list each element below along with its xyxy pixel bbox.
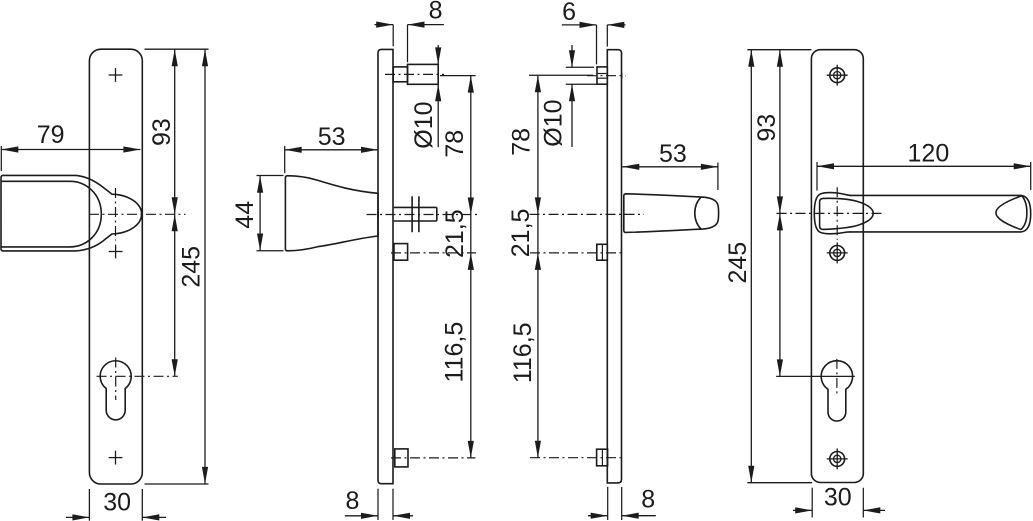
svg-text:21,5: 21,5 xyxy=(441,209,469,258)
svg-text:78: 78 xyxy=(441,130,469,158)
svg-text:30: 30 xyxy=(103,488,131,516)
svg-text:21,5: 21,5 xyxy=(507,209,535,258)
svg-text:245: 245 xyxy=(724,242,752,284)
svg-text:8: 8 xyxy=(641,486,655,514)
svg-text:6: 6 xyxy=(562,0,576,26)
svg-text:79: 79 xyxy=(37,121,65,149)
svg-text:93: 93 xyxy=(148,118,176,146)
svg-text:Ø10: Ø10 xyxy=(540,99,568,146)
svg-text:78: 78 xyxy=(507,128,535,156)
svg-text:8: 8 xyxy=(345,487,359,515)
svg-text:93: 93 xyxy=(753,114,781,142)
svg-text:30: 30 xyxy=(824,483,852,511)
svg-text:53: 53 xyxy=(318,123,346,151)
svg-text:116,5: 116,5 xyxy=(509,322,537,383)
svg-text:120: 120 xyxy=(908,140,950,168)
svg-text:245: 245 xyxy=(178,246,206,288)
svg-text:8: 8 xyxy=(429,0,443,25)
svg-text:116,5: 116,5 xyxy=(440,322,468,383)
svg-text:53: 53 xyxy=(659,140,687,168)
svg-text:Ø10: Ø10 xyxy=(410,101,438,148)
svg-text:44: 44 xyxy=(231,201,259,229)
